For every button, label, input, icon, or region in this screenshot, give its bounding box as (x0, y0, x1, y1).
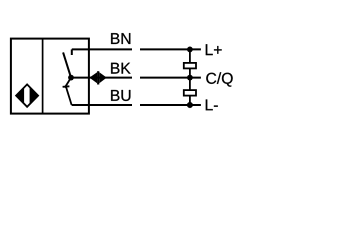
wire BN segment 1 (72, 48, 132, 50)
rail segment L+ to R1 (189, 49, 191, 62)
bidirectional C/Q arrow center bar (97, 71, 99, 84)
resistor R2 (184, 90, 196, 96)
bidirectional C/Q arrow right triangle (99, 72, 106, 83)
label L+ (206, 44, 222, 55)
wire BU segment 2 (140, 104, 201, 106)
label BN (111, 33, 130, 44)
switch pivot junction dot (68, 75, 74, 81)
inductive sensor diamond symbol (16, 84, 38, 106)
switch lower lever (NC contact) (65, 78, 71, 88)
rail segment R1 to R2 (189, 69, 191, 90)
switch lever (open, NO contact) (63, 52, 71, 77)
NC contact crossbar (63, 85, 70, 88)
label C/Q (206, 72, 232, 86)
diamond left filled cap (16, 87, 24, 103)
rail segment R2 to L- (189, 96, 191, 105)
wire from NC contact to BU (66, 87, 72, 105)
diamond right filled cap (30, 87, 38, 104)
bidirectional C/Q arrow left triangle (89, 72, 97, 83)
junction dot L+ (187, 47, 193, 53)
sensor body divider (42, 39, 44, 114)
junction dot L- (187, 102, 193, 108)
label BU (111, 90, 130, 101)
label L- (206, 100, 218, 111)
wire BK segment 1 (71, 77, 132, 79)
junction dot C/Q (187, 75, 193, 81)
resistor R1 (184, 63, 196, 69)
wire BK segment 2 (140, 77, 201, 79)
switch top terminal stub (71, 49, 73, 55)
label BK (111, 63, 130, 74)
wire BU segment 1 (72, 104, 132, 106)
sensor body outline (11, 39, 89, 114)
wire BN segment 2 (140, 48, 201, 50)
